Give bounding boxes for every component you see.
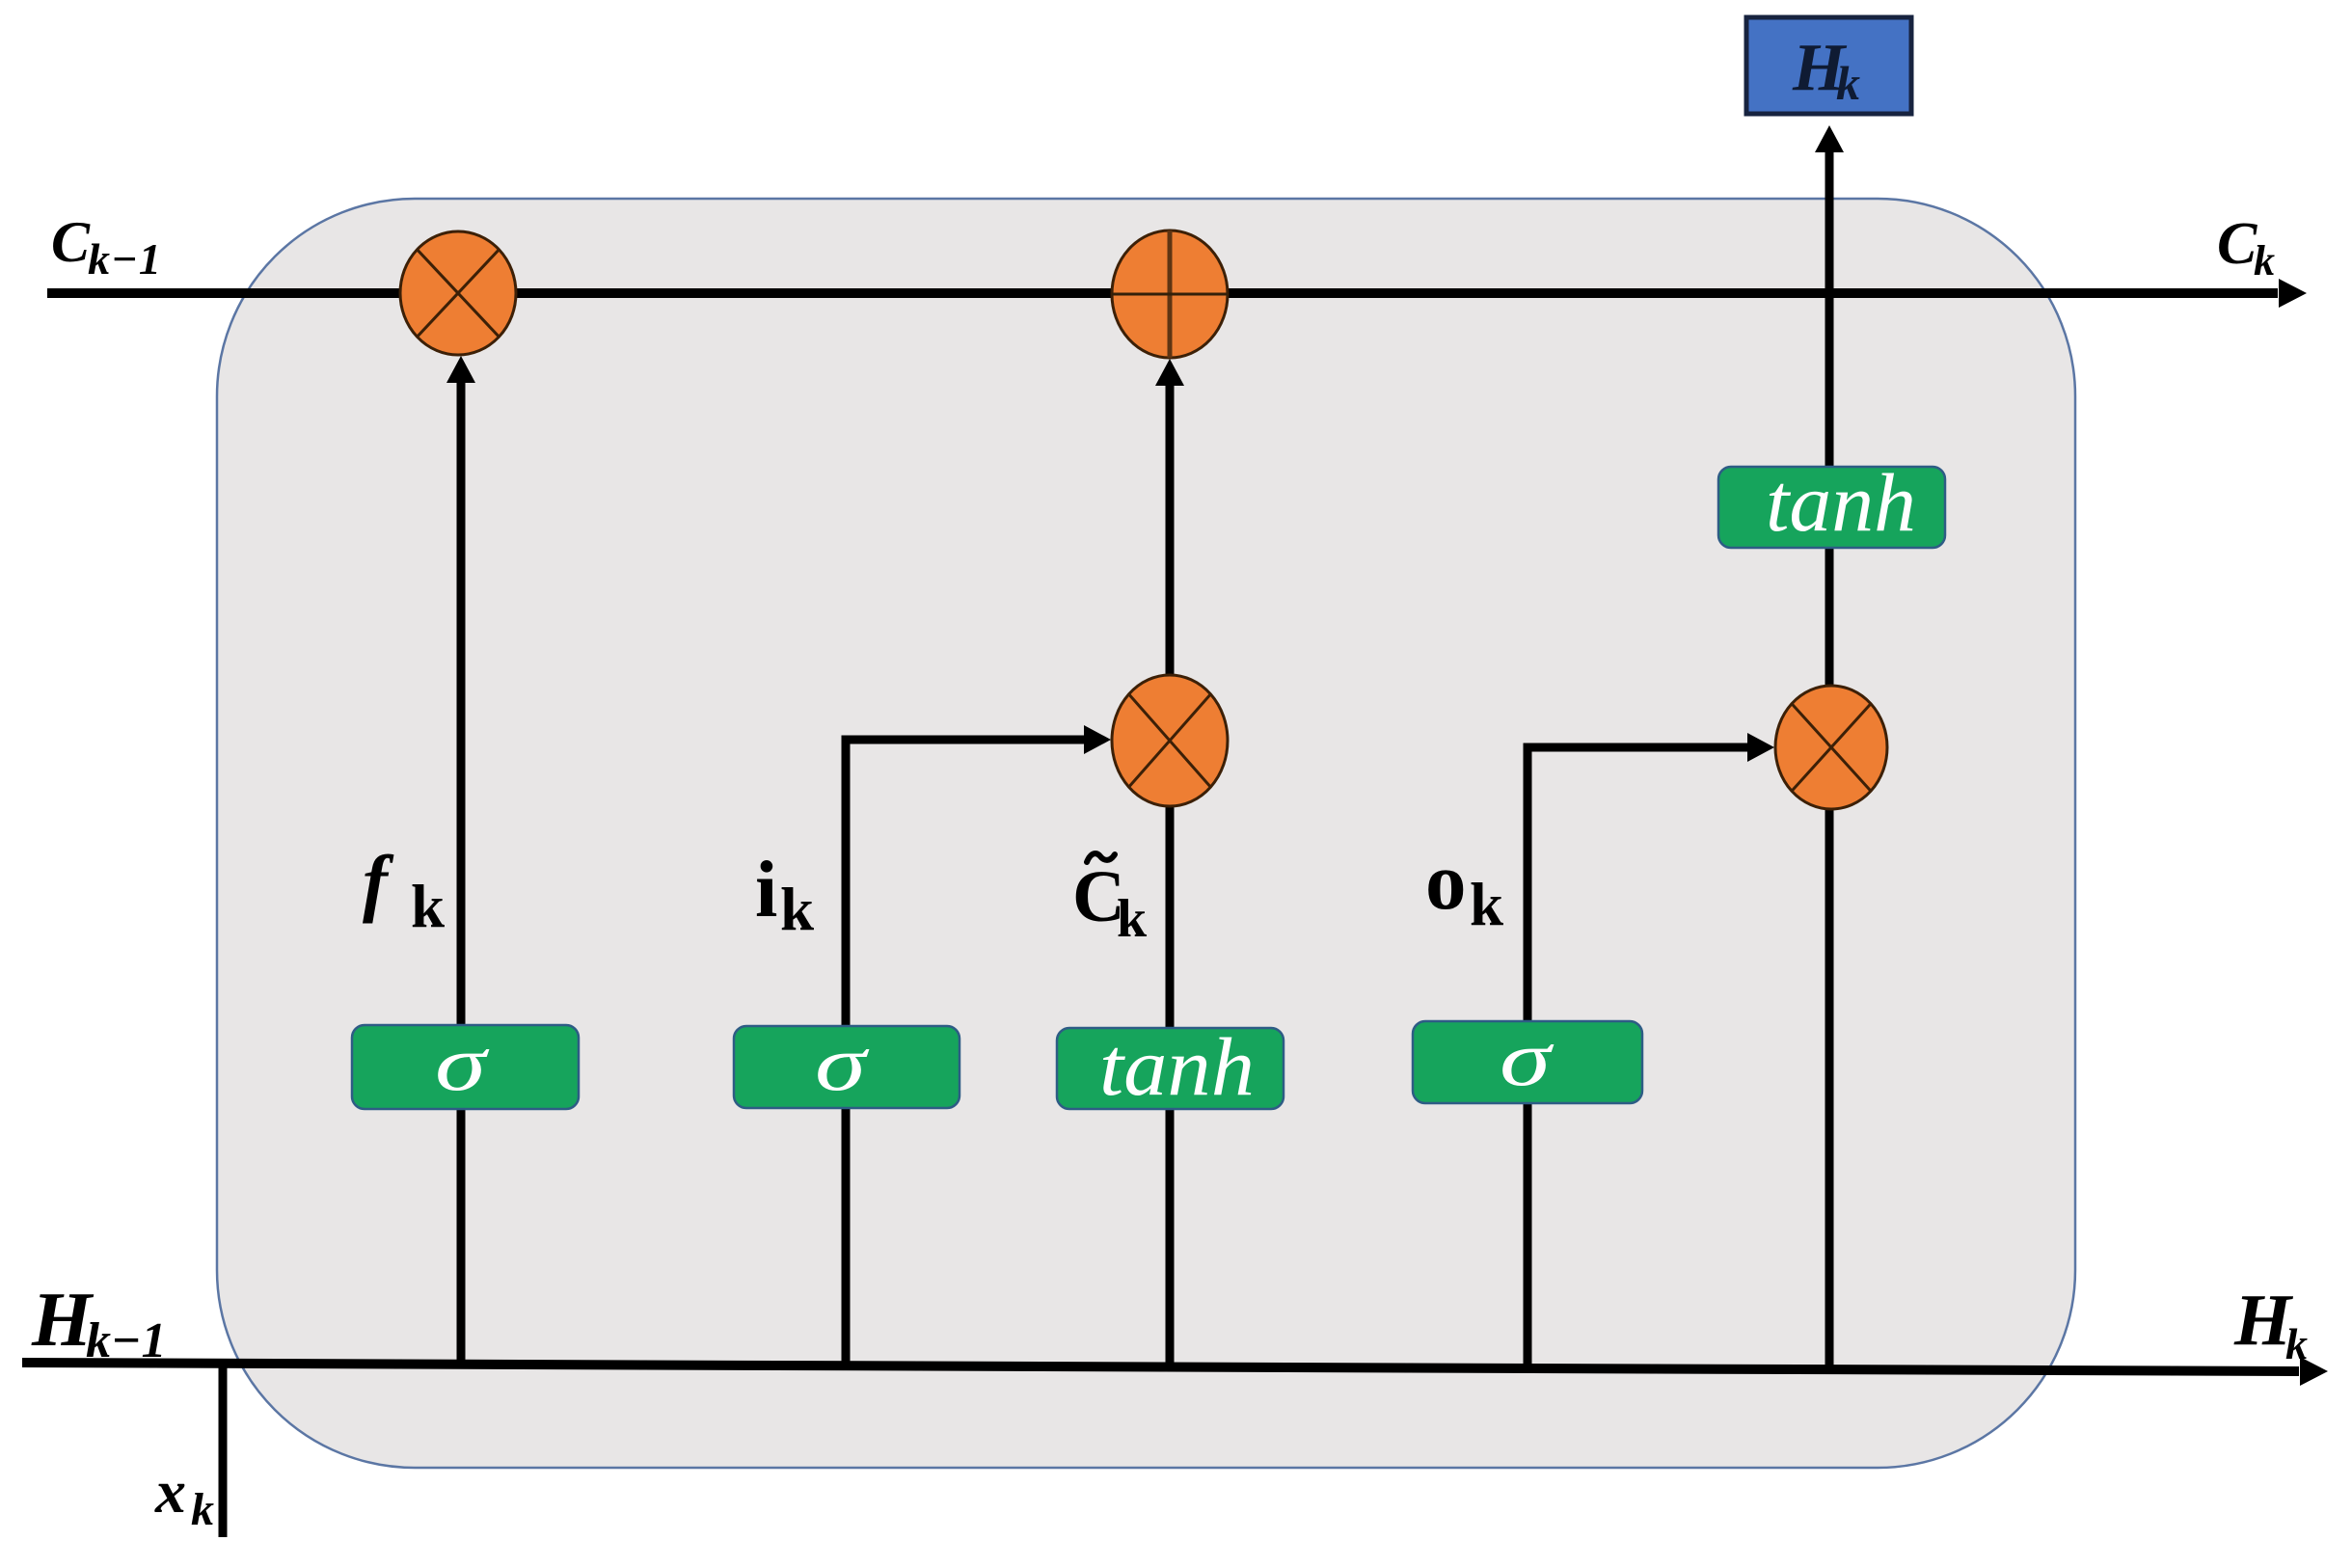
svg-text:k−1: k−1 (88, 234, 162, 284)
svg-text:k: k (2254, 237, 2275, 284)
svg-text:k: k (1117, 889, 1148, 949)
svg-text:C: C (51, 210, 91, 274)
svg-text:k: k (1836, 56, 1860, 110)
svg-text:x: x (154, 1457, 186, 1526)
svg-text:C: C (2217, 211, 2257, 277)
svg-text:k: k (1470, 871, 1503, 938)
svg-text:k: k (2285, 1319, 2308, 1368)
svg-text:o: o (1425, 836, 1467, 927)
svg-text:k−1: k−1 (86, 1313, 167, 1368)
svg-text:tanh: tanh (1099, 1020, 1255, 1113)
svg-text:σ: σ (815, 1019, 871, 1107)
svg-text:σ: σ (435, 1019, 491, 1107)
svg-text:σ: σ (1500, 1014, 1555, 1102)
svg-text:tanh: tanh (1766, 456, 1916, 549)
svg-text:k: k (411, 873, 445, 940)
svg-text:k: k (191, 1484, 214, 1535)
svg-text:k: k (780, 876, 814, 943)
svg-text:i: i (755, 845, 777, 934)
